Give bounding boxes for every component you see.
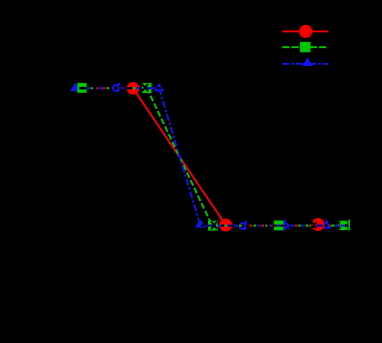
bottom stripe dash navy 29 — [317, 225, 324, 227]
blue ring marker 1 — [113, 85, 119, 91]
legend green line — [282, 46, 328, 48]
bottom stripe dash black 21 — [280, 225, 283, 227]
top stripe dash blue 18 — [152, 87, 155, 89]
top stripe dash black 1 — [79, 87, 86, 89]
legend green square — [300, 42, 310, 52]
bottom stripe dash blue 2 — [206, 225, 208, 227]
blue triangle marker bottom-left — [195, 220, 206, 228]
bottom stripe dash blue 22 — [291, 225, 294, 227]
legend blue triangle — [302, 58, 313, 67]
blue arrow stem — [284, 219, 286, 222]
bottom stripe dash blue 14 — [257, 225, 260, 227]
top stripe dash navy 17 — [146, 87, 152, 89]
blue triangle marker top — [154, 83, 164, 91]
blue series descent line — [159, 88, 200, 225]
bottom stripe dash green 13 — [254, 225, 257, 227]
bottom stripe dash red 23 — [295, 225, 298, 227]
bottom stripe dash green 7 — [225, 225, 227, 227]
black notch green square 5 upper — [339, 221, 341, 223]
bottom stripe dash navy 4 — [209, 225, 213, 227]
bottom stripe dash black 30 — [324, 225, 327, 227]
bottom stripe dash black 34 — [338, 225, 341, 227]
blue ring tick 2 — [244, 221, 247, 223]
green marker 2 — [142, 83, 152, 93]
top stripe dash navy 12 — [123, 87, 127, 89]
green marker 5 — [339, 221, 348, 230]
legend blue line — [282, 63, 328, 65]
green marker 3 — [208, 221, 218, 231]
top stripe dash blue 10 — [112, 87, 114, 89]
top stripe dash black 4 — [93, 87, 96, 89]
bottom stripe dash blue 35 — [340, 225, 344, 227]
top stripe dash green 8 — [107, 87, 110, 89]
red marker bottom-left — [219, 219, 232, 232]
blue ring marker 2 — [240, 223, 246, 229]
black X marker in green square 2 — [142, 84, 148, 92]
top stripe dash blue 15 — [136, 87, 139, 89]
bottom stripe dash red 15 — [261, 225, 264, 227]
bottom stripe dash red 31 — [329, 225, 331, 227]
blue triangle marker far right (occluded by red circle) — [322, 219, 331, 228]
black X marker in green square 3 — [211, 221, 217, 229]
top stripe dash red 7 — [103, 87, 106, 89]
blue ring tick 1 — [118, 83, 121, 85]
top stripe dash black 19 — [157, 87, 162, 89]
blue triangle marker cluster (occluded by green square) — [70, 83, 81, 92]
bottom stripe dash black 3 — [208, 225, 210, 227]
legend red circle — [299, 25, 312, 38]
blue ring dot 2 — [244, 227, 247, 230]
top stripe dash black 13 — [126, 87, 132, 89]
bottom stripe dash black 1 — [201, 225, 204, 227]
top stripe dash blue 2 — [87, 87, 90, 89]
black notch green square 5 lower — [339, 227, 341, 229]
red marker top — [127, 82, 140, 95]
bottom stripe dash black 36 — [347, 225, 349, 227]
bottom stripe dash black 6 — [221, 225, 224, 227]
top stripe dash black 9 — [109, 87, 111, 89]
black X marker on red circle right — [312, 222, 317, 228]
bottom stripe dash black 9 — [231, 225, 233, 227]
bottom stripe dash blue 33 — [336, 225, 339, 227]
bottom stripe dash green 16 — [265, 225, 267, 227]
bottom stripe dash black 19 — [274, 225, 276, 227]
bottom stripe dash blue 10 — [234, 225, 238, 227]
bottom stripe dash blue 5 — [218, 225, 221, 227]
blue ring dot 1 — [117, 89, 120, 92]
bottom stripe dash blue 25 — [301, 225, 304, 227]
blue open right-arrow marker — [284, 222, 289, 229]
green marker 4 — [274, 221, 284, 231]
legend red line — [282, 30, 328, 32]
green end bar — [348, 220, 350, 231]
top stripe dash green 3 — [91, 87, 93, 89]
green marker 1 — [77, 83, 86, 93]
green series descent line — [147, 88, 212, 225]
bottom stripe dash green 11 — [239, 225, 242, 227]
bottom stripe dash red 18 — [271, 225, 272, 227]
bottom stripe dash green 32 — [331, 225, 334, 227]
bottom stripe dash green 26 — [305, 225, 308, 227]
bottom stripe dash green 24 — [298, 225, 301, 227]
top stripe dash blue 6 — [98, 87, 102, 89]
bottom stripe dash red 27 — [308, 225, 309, 227]
bottom stripe dash red 12 — [250, 225, 253, 227]
bottom stripe dash navy 8 — [228, 225, 232, 227]
black blob in green square 5 — [345, 224, 347, 227]
bottom stripe dash blue 17 — [269, 225, 271, 227]
bottom stripe dash green 28 — [310, 225, 311, 227]
top stripe dash black 16 — [140, 87, 142, 89]
black blob in cluster square — [81, 87, 84, 90]
top stripe dash red 11 — [120, 87, 123, 89]
blue arrow dot — [289, 227, 291, 229]
bottom stripe dash navy 20 — [277, 225, 281, 227]
top stripe dash green 14 — [133, 87, 136, 89]
top stripe dash red 5 — [96, 87, 98, 89]
red series descent line — [133, 88, 226, 225]
red marker bottom-right — [312, 218, 325, 231]
